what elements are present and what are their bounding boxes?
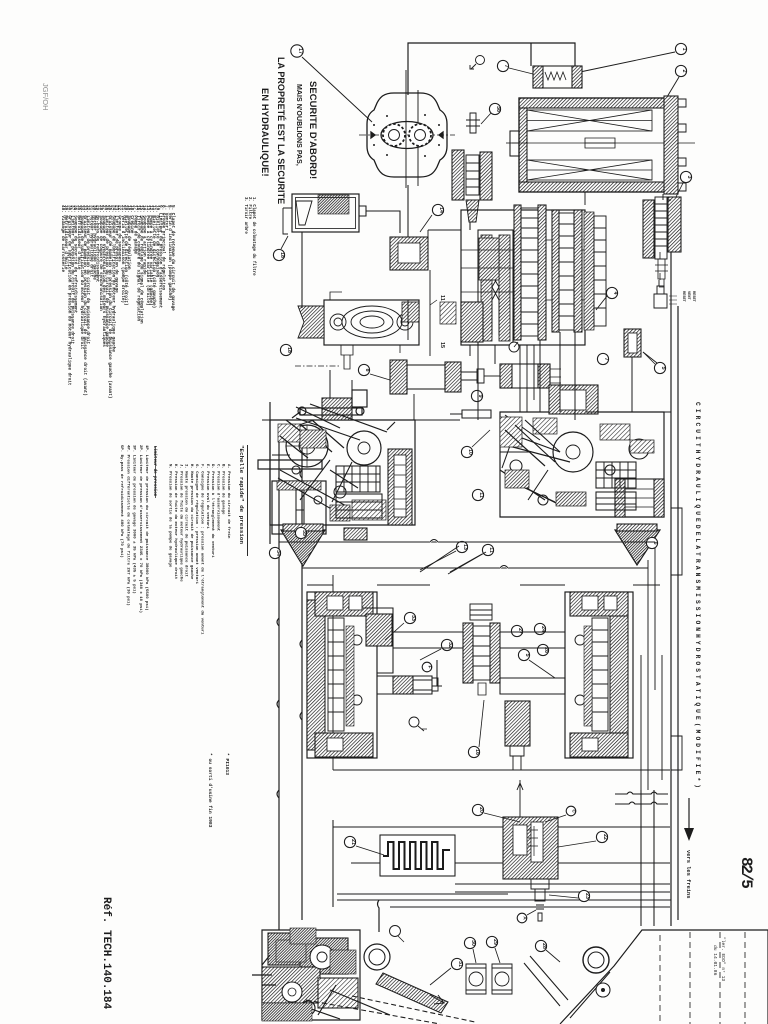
bottom pump mass3 [262,1003,312,1021]
heat exchanger 21 coil [383,842,450,869]
valve 22 stem [531,879,549,921]
svg-text:VENT: VENT [686,291,690,300]
pump right lower cylinder [615,479,664,517]
svg-text:G. Consigne de régulation : pr: G. Consigne de régulation : pression amo… [194,464,199,585]
oil cooler C2 right flange [664,96,678,194]
leader callout 17 [302,57,372,122]
wire motor section box [333,575,670,770]
manifold column B wall2 [574,210,582,332]
motor left bottom block [315,733,373,757]
svg-text:7: 7 [503,65,509,68]
wire right wavy pair [641,540,662,790]
svg-text:JGF/OH: JGF/OH [41,83,50,111]
charge pump right end [402,302,419,322]
svg-text:20: 20 [478,807,484,813]
svg-text:* ou sorti d'usine fin 1983: * ou sorti d'usine fin 1983 [207,753,213,828]
pump left second circle [347,431,381,465]
svg-text:33: 33 [410,615,416,621]
svg-text:11: 11 [478,492,484,498]
callout 7b [597,353,608,364]
svg-text:18: 18 [286,347,292,353]
motorL inner wall [346,626,354,726]
svg-text:16: 16 [474,749,480,755]
wire mid horizontal [262,419,460,421]
tank top pipes [641,790,654,926]
callout 34 [269,547,280,558]
pump right top cap [549,385,598,414]
oil cooler C2 hub [585,138,615,148]
wavy pipe marks left [277,470,302,798]
pumpR lever cluster [505,420,560,466]
pump left base block [272,481,326,534]
pump left swash circle [286,425,328,467]
svg-text:3P. Limiteur de pression de ga: 3P. Limiteur de pression de gavage 3000 … [132,445,137,594]
callout A [517,913,527,923]
svg-text:7: 7 [603,358,609,361]
charge pump drain [341,345,353,369]
motorL inner circles [352,635,362,705]
svg-text:Réf. TECH.140.184: Réf. TECH.140.184 [100,897,112,1010]
strainer S6 funnel [615,530,660,565]
svg-text:5: 5 [524,654,530,657]
callout 6 [646,537,657,548]
svg-text:F: F [428,666,433,669]
svg-text:11: 11 [488,547,494,553]
pump P17 gear housing [359,70,455,188]
pumpR ladder detail [604,462,628,488]
wire right border inner [677,306,679,920]
pump right levers [500,425,570,505]
callout 22 [596,831,607,842]
pump right swash circle [553,432,593,472]
wire cooler down [585,192,663,205]
strainer S34 top bar [283,524,323,531]
heat exchanger 21 frame [380,835,455,876]
motor right outline [565,592,633,758]
callout 10 [461,446,472,457]
manifold gauge bottom [509,342,519,352]
wire filter to pump circuit [301,232,303,308]
callout 20 [472,804,483,815]
callout 3 [680,171,691,182]
svg-text:E. Pression aval du venturi: E. Pression aval du venturi [205,464,210,529]
wire left riser pair [278,432,280,918]
callout F [422,662,432,672]
reservoir outline [560,930,768,1024]
svg-text:28: 28 [541,943,547,949]
motorR top slots [582,596,598,610]
svg-text:10: 10 [467,449,473,455]
svg-text:22: 22 [602,834,608,840]
check valve CV7 body [533,66,582,88]
dash-dot line [295,365,341,367]
svg-text:"Echelle rapide" de pression: "Echelle rapide" de pression [238,445,245,544]
manifold left wall hatch [479,238,499,280]
pumpL patch top [300,430,326,448]
svg-text:82/5: 82/5 [737,857,755,888]
pumpL ladder detail [336,466,376,492]
valve16 top stack [470,604,492,620]
motor right top block [570,592,628,616]
mid leader lines [420,546,486,574]
motorR inner wall [584,626,592,726]
leader callout 2 [667,77,679,97]
pump right small circle [629,439,649,459]
bearing ring [364,944,390,970]
bracket 30 [466,964,486,994]
callout 13 [456,541,467,552]
svg-text:Limiteur de pression: Limiteur de pression [152,446,157,497]
pumpL cyl block [292,466,382,518]
pumpR mass2 [533,418,557,434]
regulation manifold outline [461,210,585,345]
valve V36 right wall [480,152,492,200]
relief valve RV3 spool [655,197,667,259]
svg-text:5P. By-pass de refroidissement: 5P. By-pass de refroidissement 480 kPa (… [119,445,124,558]
svg-text:13: 13 [462,544,468,550]
wire filter left drop [283,216,288,234]
svg-text:C. Pression d'asservissement: C. Pression d'asservissement [215,464,220,532]
motor left shaft [377,676,432,694]
svg-text:I. Haute pression du circuit d: I. Haute pression du circuit de puissanc… [184,464,189,577]
svg-text:27: 27 [517,628,523,634]
relief valve RV3 stem [655,259,668,287]
brake valve 22 body [503,817,558,879]
svg-text:N. Pression de sortie de la po: N. Pression de sortie de la pompe de gav… [168,464,173,568]
strainer S34 funnel [281,530,325,566]
manifold column B wall [552,210,559,332]
wire pump tops to bus [330,370,352,398]
wire border connector top [668,199,671,201]
valve V36 left wall [452,150,464,200]
block 19 inner [398,243,420,263]
filter F18 body [292,194,359,232]
pumpR cyl block [596,465,636,510]
svg-text:A. Pression du circuit de frei: A. Pression du circuit de frein [226,464,231,539]
wire top frame [408,43,575,95]
svg-text:15: 15 [439,342,445,348]
svg-text:4: 4 [612,292,618,295]
svg-text:35: 35 [301,530,307,536]
svg-text:RESET: RESET [681,291,685,303]
svg-text:8: 8 [364,369,370,372]
manifold column B spool [559,213,574,330]
callout 16 [468,746,479,757]
svg-text:LA PROPRETÉ EST LA SECURITE: LA PROPRETÉ EST LA SECURITE [276,57,286,204]
oil cooler C2 tube bundle upper [527,110,652,131]
oil cooler C2 shell bottom [519,182,667,192]
callout 17 [291,45,303,57]
sync valve 16 stem [478,683,486,695]
motor left ext outline [348,608,393,673]
pump left link rod [298,390,367,415]
callout 29 [486,936,497,947]
svg-text:EN HYDRAULIQUE!: EN HYDRAULIQUE! [260,88,270,177]
left riser bottom bend [279,760,302,930]
venturi body right wall [499,235,510,341]
pumpL piston block [336,466,380,492]
pumpR patch1 [505,470,529,488]
svg-text:34: 34 [275,550,281,556]
oil cooler C2 left cap [510,131,522,156]
wire manifold to pumpR [520,345,534,412]
oil cooler C2 shell top [519,98,667,108]
svg-text:36: 36 [495,106,501,112]
callout 24 [534,623,545,634]
motor right bottom block [570,733,628,757]
wire bottom frame [333,820,670,907]
svg-text:* PI1013: * PI1013 [224,753,230,775]
check valve CV7 right plug [572,66,582,88]
svg-text:32: 32 [447,642,453,648]
duct arrow [430,995,444,1004]
svg-text:D. Pression à l'étranglement d: D. Pression à l'étranglement du venturi [210,464,215,558]
check valve CV7 left plug [533,66,543,88]
relief valve RV3 right block [668,197,681,252]
svg-text:21: 21 [350,839,356,845]
callout 4 [606,287,617,298]
manifold column A wall [514,205,521,340]
filter F18 inlet tick [283,208,292,216]
motor link pipes right [500,632,565,648]
svg-text:4P. Pression différentielle de: 4P. Pression différentielle de colmatage… [125,445,130,606]
wire manifold top link [428,230,461,270]
venturi stack V5 [624,329,641,357]
wire right mid bus [585,357,671,412]
svg-text:RESET: RESET [691,291,695,303]
callout 2 [675,65,686,76]
bottom pump circles [310,945,334,969]
valve V8 body [407,365,445,389]
reset vent valve [654,280,667,308]
svg-text:du 14.01.86: du 14.01.86 [712,945,718,976]
callout 23 [578,890,589,901]
pump left crossbar [258,460,322,469]
pumpL extra [272,420,358,502]
svg-text:MAIS N'OUBLIONS PAS,: MAIS N'OUBLIONS PAS, [295,84,302,166]
callout 18 [281,236,288,249]
callout 33 [404,612,415,623]
pumpL hatch patch2 [352,500,386,520]
filter F18 funnel [296,201,312,225]
check valve CV7 spring [545,72,566,80]
svg-text:24: 24 [540,626,546,632]
svg-text:5: 5 [660,367,666,370]
callout 27 [511,625,522,636]
charge pump body [324,300,419,345]
pump left diag links [278,460,350,514]
pump left top cap [322,398,352,420]
sync valve 16 left wall [463,623,473,683]
svg-text:F. Consigne de régulation : pr: F. Consigne de régulation : pression amo… [200,464,205,635]
wire check valve to cooler [530,43,532,66]
svg-text:SECURITE D'ABORD!: SECURITE D'ABORD! [308,81,319,179]
motorL bottom slots [327,738,343,751]
oil cooler C2 tube bundle lower [527,160,652,180]
callout C [566,806,576,816]
motor right drain valve [510,746,524,770]
motor link pipes left [393,632,463,648]
oil cooler C2 bolts [678,99,686,191]
leader manifold callouts [596,296,657,363]
wire filter to cone [366,211,400,233]
pumpR patch3 [630,440,654,453]
callout 8 [358,364,369,375]
sync valve 16 right wall [490,623,500,683]
small patch near 430 [440,302,456,324]
venturi body left wall [481,235,492,341]
motor right spool [592,618,608,731]
svg-text:11: 11 [439,295,445,301]
valve V8 stem [461,369,484,383]
motorL top slots [327,596,343,610]
svg-text:17: 17 [297,48,303,54]
oil cooler C2 shell left [519,108,527,182]
svg-text:40. Vidange de carrosserie: 40. Vidange de carrosserie [60,205,65,272]
motor left wall left [307,600,325,750]
motorR bottom slots [582,738,598,751]
relief valve RV3 left block [643,200,654,258]
bottom pump links [262,955,340,1019]
reservoir baffles [660,932,745,1024]
motor left ext hatch [366,614,392,646]
small circle e [390,926,401,937]
callout 31 [451,958,462,969]
motor left spool [328,618,344,731]
manifold right column [584,212,594,330]
callout 26 [537,644,548,655]
manifold gauge top [584,235,594,245]
svg-text:3: 3 [686,176,692,179]
callout 9 [471,390,482,401]
filter F18 clogging patch [318,195,349,214]
valve V36 tip [466,200,479,222]
venturi outline [478,230,513,345]
svg-text:1: 1 [681,48,687,51]
manifold cross links [461,240,584,300]
oil cooler C2 outline [519,98,667,192]
callout 14 [432,204,443,215]
manifold column A wall2 [538,205,546,340]
pumpR hatch patch [500,417,522,447]
charge pump left block [298,306,324,338]
manifold left hatch [461,302,483,342]
wire valve8 drop [413,394,415,420]
pumpL lever cluster [280,420,344,458]
callout 30 [464,937,475,948]
leader callout 1 [580,52,675,72]
motor left coupling [393,676,413,694]
valve V8 right blob [445,362,461,392]
drain circle [409,717,419,727]
svg-text:J. Pression de fuite du moteur: J. Pression de fuite du moteur hydrauliq… [178,464,183,582]
sync valve 16 spool [473,626,490,680]
small valve block 19 [390,237,428,270]
pump right unit outline [500,412,664,517]
tank feed pipes wavy [615,792,668,804]
callout 11c [482,544,493,555]
valve 22 pilot line [517,780,523,817]
valve V36 stem [466,113,480,133]
motor top pipes [307,584,660,586]
bottom pump extra dark [276,940,306,962]
wire right border jog [671,508,682,770]
wire stubs manifold to bus [470,332,575,420]
callout 35 [295,527,306,538]
svg-text:3. Tiroir arbre: 3. Tiroir arbre [243,197,248,234]
valve 22 inner slots [513,825,527,855]
charge pump ovals [330,306,413,338]
pumpR patch2 [556,492,586,506]
venturi throat [492,240,499,335]
small hatched block mid [344,528,367,540]
svg-text:31: 31 [457,961,463,967]
svg-text:C I R C U I T H Y D R A U L: C I R C U I T H Y D R A U L I Q U E D E … [694,402,701,788]
callout 21 [344,836,355,847]
motor right shaft [500,678,565,694]
valve V8 left blob [390,360,407,394]
svg-text:vers les freins: vers les freins [685,850,691,899]
pump left servo column [388,449,412,525]
svg-text:29: 29 [492,939,498,945]
pumpL inner mass [278,424,300,442]
svg-text:1P. Limiteur de pression du ci: 1P. Limiteur de pression du circuit de p… [144,445,149,611]
bracket 29 [492,964,512,994]
bottom pump unit mass [262,930,360,1020]
callout 28 [535,940,546,951]
motor left top block [315,592,373,616]
wire right border outer [670,200,672,926]
callout 1 [675,43,686,54]
motor right shaft hub [505,701,530,746]
dashed diagonals [306,1000,440,1024]
callout 36 [481,113,491,124]
wire long mid horizontals [279,542,655,568]
callout 18b [280,344,291,355]
strainer S6 top bar [617,524,657,531]
svg-text:2: 2 [681,70,687,73]
pumpR piston block [596,462,636,488]
callout 5 [654,362,665,373]
wire drop to bottom pump [378,900,380,932]
svg-text:B. Pression de gavage: B. Pression de gavage [221,464,226,515]
motorR inner circles [575,635,585,705]
callout 32 [441,639,452,650]
manifold column A spool [521,208,538,336]
svg-text:"ler. EDO" n° 13: "ler. EDO" n° 13 [720,937,726,981]
wire cooler axis [506,142,519,144]
svg-text:18: 18 [279,252,285,258]
svg-text:2P. Limiteur de pression d'ass: 2P. Limiteur de pression d'asservissemen… [138,445,143,613]
wire wave marks mid [430,540,508,568]
wire valve8 to pilot [484,375,500,377]
wire reset link [659,252,661,280]
oil cooler C2 axis [512,142,695,144]
wire motor mid couplers [432,660,442,686]
flag marker top [476,56,485,65]
pump left levers [292,404,395,440]
diagonal duct [376,973,448,1013]
reservoir port ring [583,947,609,973]
reservoir slant lines [524,956,610,1018]
motor right wall [610,600,628,750]
reservoir small port [596,983,610,997]
svg-text:H. Haute pression du circuit d: H. Haute pression du circuit de puissanc… [189,464,194,580]
callout 11b [472,489,483,500]
svg-text:23: 23 [584,893,590,899]
svg-text:K. Pression de fuite du moteur: K. Pression de fuite du moteur hydrauliq… [173,464,178,580]
callout 7 [497,60,508,71]
